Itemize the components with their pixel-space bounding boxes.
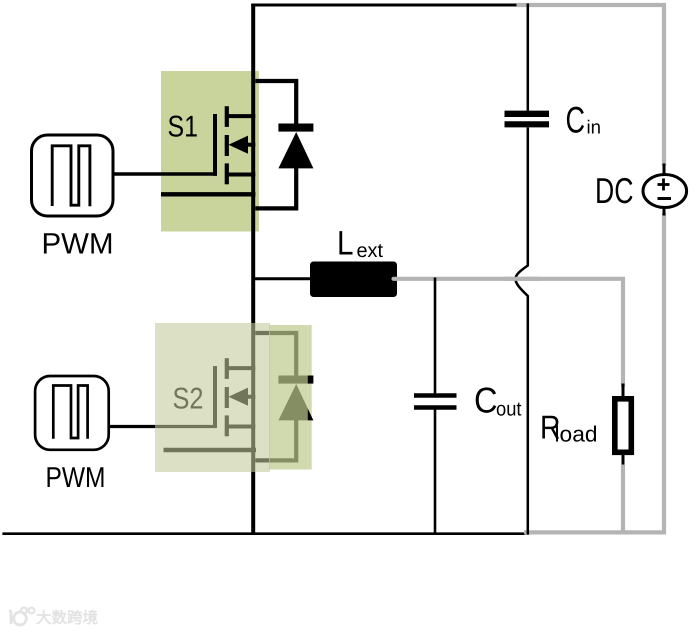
svg-text:ext: ext <box>357 240 384 262</box>
PWM source 1 block <box>32 135 114 216</box>
svg-text:PWM: PWM <box>46 462 106 494</box>
PWM source 2 block <box>35 376 109 450</box>
bottom return wire (grey) to DC rail <box>524 213 664 532</box>
bottom return wire (black) <box>2 532 525 535</box>
watermark logo <box>10 608 35 625</box>
top bus wire (black) <box>251 4 518 7</box>
Cout top plate <box>414 393 457 397</box>
deep green sliver behind S2 diode right edge <box>308 325 312 470</box>
wire PWM2 to S2 gate <box>109 425 217 428</box>
PWM 2 pulse icon <box>53 386 87 439</box>
grey wire over crossover redrawn on top <box>505 277 540 281</box>
highlight overlay S2 mosfet <box>155 323 270 472</box>
highlight overlay S2 diode <box>269 325 308 470</box>
S1 source bottom bar <box>161 192 255 196</box>
grey output wire inductor to load <box>394 279 624 386</box>
Cin top plate <box>505 111 550 117</box>
Cin bottom plate <box>505 121 550 127</box>
Rload lower grey wire <box>621 465 625 534</box>
svg-text:C: C <box>566 100 586 141</box>
Cout bottom plate <box>414 405 457 409</box>
Cout branch lower wire <box>434 410 437 535</box>
svg-text:L: L <box>337 225 354 263</box>
Rload lower black lead <box>622 450 625 467</box>
inductor Lext block <box>310 262 397 298</box>
wire switch node to inductor <box>252 277 312 280</box>
svg-text:大数跨境: 大数跨境 <box>36 609 99 627</box>
svg-text:load: load <box>555 422 598 447</box>
svg-text:PWM: PWM <box>42 228 114 261</box>
DC source upper black stub <box>663 164 666 177</box>
PWM 1 pulse icon <box>52 146 90 206</box>
DC source lower black stub <box>663 206 666 216</box>
DC plus sign <box>658 183 670 186</box>
Cin branch lower wire with crossover hop <box>516 128 528 535</box>
wire PWM1 to S1 gate <box>113 172 217 175</box>
svg-text:in: in <box>587 118 602 139</box>
top bus wire (grey) and right rail to DC <box>517 5 665 166</box>
highlight box S1 <box>161 71 259 232</box>
left vertical rail <box>251 4 255 535</box>
Rload upper black lead <box>622 384 625 399</box>
svg-text:DC: DC <box>595 170 634 211</box>
svg-text:S1: S1 <box>168 111 199 144</box>
transistor S1 <box>215 81 313 208</box>
svg-text:out: out <box>496 399 522 421</box>
capacitor Cin branch upper wire <box>527 4 530 111</box>
Rload resistor body <box>615 399 632 453</box>
S2 source bottom bar <box>164 448 257 452</box>
DC source ellipse <box>643 175 687 208</box>
DC minus sign <box>658 197 672 200</box>
capacitor Cout branch upper wire <box>434 278 437 394</box>
svg-text:C: C <box>474 380 498 421</box>
